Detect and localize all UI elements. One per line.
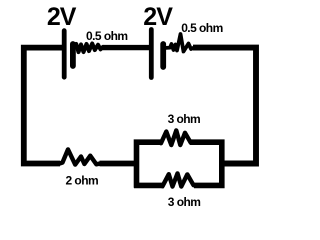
- resistor R3 2 ohm zigzag: [60, 149, 102, 164]
- battery B2 long plate (+): [149, 30, 154, 78]
- svg-text:3 ohm: 3 ohm: [168, 195, 201, 209]
- svg-text:2V: 2V: [47, 3, 77, 31]
- battery B1 short plate (-): [70, 44, 76, 66]
- resistor R5 3 ohm zigzag (bottom branch): [163, 173, 194, 186]
- resistor R1 0.5 ohm scribble: [75, 44, 105, 53]
- svg-text:0.5 ohm: 0.5 ohm: [181, 21, 223, 35]
- wire: R3 to parallel box left node: [100, 161, 138, 167]
- wire: top-left + left side + bottom-left of outer loop: [24, 48, 63, 164]
- resistor R4 3 ohm zigzag (top branch): [161, 130, 191, 145]
- wire: bottom-left branch segment of parallel box: [134, 183, 164, 189]
- battery B2 short plate (-): [160, 44, 166, 67]
- svg-text:0.5 ohm: 0.5 ohm: [86, 29, 128, 43]
- battery B1 long plate (+): [62, 31, 67, 77]
- svg-text:3 ohm: 3 ohm: [168, 112, 201, 126]
- wire: parallel box left edge and top-left branch segment: [137, 142, 163, 188]
- wire: R2 to top-right corner, right side, and into parallel box right node: [193, 48, 256, 164]
- wire: R1 to battery B2: [103, 45, 151, 50]
- resistor R2 0.5 ohm scribble with tall spike: [166, 34, 194, 52]
- svg-text:2V: 2V: [143, 3, 173, 31]
- svg-text:2 ohm: 2 ohm: [66, 174, 99, 188]
- wire: top-right branch segment and parallel box right edge: [190, 142, 222, 185]
